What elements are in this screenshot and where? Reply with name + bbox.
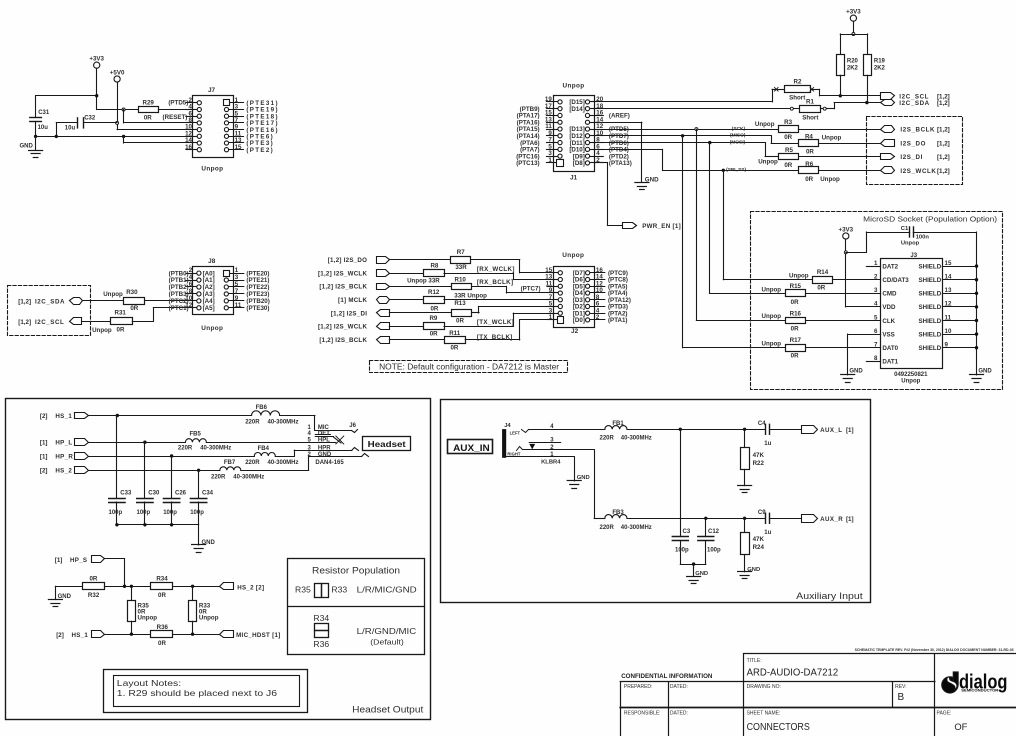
svg-text:RESPONSIBLE:: RESPONSIBLE: bbox=[624, 711, 661, 717]
svg-text:GND: GND bbox=[978, 368, 992, 374]
svg-text:[RX_WCLK]: [RX_WCLK] bbox=[477, 266, 515, 273]
svg-text:2: 2 bbox=[596, 314, 600, 321]
svg-text:100p: 100p bbox=[675, 547, 689, 553]
svg-text:11: 11 bbox=[235, 302, 242, 309]
svg-text:REV:: REV: bbox=[895, 684, 906, 690]
svg-text:0R: 0R bbox=[158, 640, 166, 647]
svg-text:SHIELD: SHIELD bbox=[918, 263, 941, 270]
svg-text:0R: 0R bbox=[791, 326, 799, 333]
svg-text:I2C_SDA: I2C_SDA bbox=[35, 299, 65, 306]
svg-text:(SPI_SS): (SPI_SS) bbox=[726, 167, 746, 173]
svg-text:Headset Output: Headset Output bbox=[352, 705, 424, 715]
svg-text:[1,2] I2S_BCLK: [1,2] I2S_BCLK bbox=[319, 284, 367, 291]
svg-text:DAT0: DAT0 bbox=[882, 345, 898, 352]
svg-text:I2S_DO: I2S_DO bbox=[900, 141, 926, 148]
svg-text:C3: C3 bbox=[683, 529, 691, 535]
svg-text:Unpop: Unpop bbox=[822, 134, 842, 141]
svg-text:[1,2]: [1,2] bbox=[937, 168, 950, 175]
svg-text:2K2: 2K2 bbox=[874, 66, 886, 72]
svg-text:0R: 0R bbox=[130, 305, 138, 312]
svg-text:[1,2] I2S_DI: [1,2] I2S_DI bbox=[331, 310, 367, 317]
svg-text:[1]: [1] bbox=[40, 440, 48, 447]
svg-text:GND: GND bbox=[20, 144, 34, 150]
svg-text:100p: 100p bbox=[707, 547, 721, 553]
svg-text:GND: GND bbox=[645, 177, 659, 184]
svg-text:47K: 47K bbox=[753, 536, 765, 543]
svg-text:(PTC13): (PTC13) bbox=[516, 160, 539, 167]
svg-text:(MISO): (MISO) bbox=[730, 133, 746, 139]
svg-text:R16: R16 bbox=[790, 310, 802, 317]
svg-text:0R: 0R bbox=[817, 285, 825, 292]
svg-text:220R: 220R bbox=[245, 420, 260, 426]
svg-text:GND: GND bbox=[747, 567, 760, 573]
svg-text:HS_2 [2]: HS_2 [2] bbox=[237, 584, 264, 591]
svg-text:GND: GND bbox=[318, 452, 332, 458]
svg-text:[A4]: [A4] bbox=[203, 298, 215, 305]
svg-text:[1]: [1] bbox=[40, 453, 48, 460]
svg-text:[1,2]: [1,2] bbox=[937, 100, 950, 107]
svg-text:GND: GND bbox=[202, 540, 216, 546]
svg-text:R1: R1 bbox=[806, 99, 814, 106]
svg-text:(MOSI): (MOSI) bbox=[730, 139, 746, 145]
svg-text:R33: R33 bbox=[331, 585, 347, 595]
svg-text:HS_1: HS_1 bbox=[55, 413, 72, 420]
svg-text:[1,2] I2S_WCLK: [1,2] I2S_WCLK bbox=[318, 324, 368, 331]
svg-text:[2]: [2] bbox=[40, 413, 48, 420]
svg-text:FB4: FB4 bbox=[258, 446, 270, 452]
svg-text:220R: 220R bbox=[211, 474, 226, 480]
svg-text:Unpop: Unpop bbox=[901, 241, 920, 247]
svg-text:R31: R31 bbox=[115, 310, 127, 317]
svg-text:+5V0: +5V0 bbox=[110, 69, 125, 76]
svg-text:R10: R10 bbox=[455, 276, 467, 283]
svg-text:220R: 220R bbox=[178, 446, 193, 452]
svg-text:[1,2] I2S_DO: [1,2] I2S_DO bbox=[328, 257, 367, 264]
svg-text:11: 11 bbox=[945, 314, 952, 321]
svg-text:Unpop: Unpop bbox=[138, 615, 158, 622]
svg-text:FB3: FB3 bbox=[612, 510, 624, 516]
svg-text:J1: J1 bbox=[570, 174, 578, 181]
svg-text:I2C_SDA: I2C_SDA bbox=[899, 100, 929, 107]
svg-text:40-300MHz: 40-300MHz bbox=[233, 474, 264, 480]
svg-text:(AREF): (AREF) bbox=[609, 113, 630, 120]
svg-text:Auxiliary Input: Auxiliary Input bbox=[796, 591, 863, 601]
svg-text:I2C_SCL: I2C_SCL bbox=[35, 319, 64, 326]
svg-text:C33: C33 bbox=[120, 491, 132, 497]
svg-text:C1: C1 bbox=[901, 226, 909, 232]
svg-text:R11: R11 bbox=[449, 330, 461, 337]
svg-text:DRAWING NO:: DRAWING NO: bbox=[747, 684, 781, 690]
svg-text:DAT2: DAT2 bbox=[882, 263, 898, 270]
svg-text:GND: GND bbox=[58, 594, 72, 600]
svg-text:TITLE:: TITLE: bbox=[747, 658, 762, 664]
svg-text:DAT1: DAT1 bbox=[882, 359, 898, 366]
svg-text:R4: R4 bbox=[805, 133, 813, 140]
svg-text:SHEET NAME:: SHEET NAME: bbox=[747, 711, 781, 717]
svg-text:I2S_DI: I2S_DI bbox=[900, 154, 923, 161]
svg-text:0R: 0R bbox=[430, 331, 438, 338]
svg-text:FB7: FB7 bbox=[224, 460, 236, 466]
svg-text:(PTE2): (PTE2) bbox=[246, 147, 274, 154]
svg-text:1u: 1u bbox=[764, 441, 771, 447]
svg-text:40-300MHz: 40-300MHz bbox=[268, 420, 299, 426]
svg-text:CONFIDENTIAL INFORMATION: CONFIDENTIAL INFORMATION bbox=[621, 673, 712, 680]
svg-text:I2S_BCLK: I2S_BCLK bbox=[900, 127, 935, 134]
svg-text:C9: C9 bbox=[758, 510, 766, 516]
svg-text:3: 3 bbox=[235, 274, 239, 281]
svg-text:CMD: CMD bbox=[882, 291, 897, 298]
svg-text:Unpop: Unpop bbox=[758, 159, 778, 166]
svg-text:R36: R36 bbox=[313, 639, 329, 649]
svg-text:DET: DET bbox=[318, 431, 330, 437]
svg-text:SHIELD: SHIELD bbox=[918, 331, 941, 338]
svg-text:HP_L: HP_L bbox=[55, 440, 72, 447]
svg-text:5: 5 bbox=[235, 281, 239, 288]
svg-text:40-300MHz: 40-300MHz bbox=[621, 436, 652, 442]
svg-text:PAGE:: PAGE: bbox=[937, 711, 952, 717]
svg-text:SHIELD: SHIELD bbox=[918, 291, 941, 298]
svg-text:C26: C26 bbox=[175, 491, 187, 497]
svg-text:(PTC1): (PTC1) bbox=[169, 305, 189, 312]
svg-text:Unpop: Unpop bbox=[563, 83, 585, 90]
svg-text:(PTE30): (PTE30) bbox=[246, 305, 269, 312]
svg-text:J6: J6 bbox=[349, 423, 356, 429]
svg-text:GND: GND bbox=[695, 571, 708, 577]
svg-text:AUX_R: AUX_R bbox=[820, 516, 843, 523]
svg-text:R13: R13 bbox=[454, 300, 466, 307]
svg-text:HPR: HPR bbox=[318, 446, 331, 452]
svg-text:GND: GND bbox=[577, 475, 590, 481]
svg-text:DATED:: DATED: bbox=[670, 684, 688, 690]
svg-text:100p: 100p bbox=[190, 510, 204, 516]
svg-text:0R: 0R bbox=[791, 299, 799, 306]
svg-text:KLBR4: KLBR4 bbox=[541, 460, 561, 466]
svg-text:J3: J3 bbox=[910, 253, 917, 259]
svg-text:LEFT: LEFT bbox=[510, 431, 521, 436]
svg-text:R7: R7 bbox=[457, 249, 465, 256]
svg-text:Short: Short bbox=[789, 95, 805, 102]
svg-text:14: 14 bbox=[945, 274, 952, 281]
svg-text:HP_S: HP_S bbox=[70, 557, 87, 564]
svg-text:40-300MHz: 40-300MHz bbox=[268, 460, 299, 466]
svg-text:(PTD5): (PTD5) bbox=[168, 100, 188, 107]
svg-text:Unpop: Unpop bbox=[762, 313, 782, 320]
svg-text:(PTA13): (PTA13) bbox=[609, 160, 632, 167]
svg-text:SCHEMATIC TEMPLATE REV. F#2 (N: SCHEMATIC TEMPLATE REV. F#2 (November 30… bbox=[855, 648, 1014, 652]
svg-text:33R: 33R bbox=[455, 264, 467, 271]
svg-text:[1,2] I2S_BCLK: [1,2] I2S_BCLK bbox=[319, 337, 367, 344]
svg-text:[TX_BCLK]: [TX_BCLK] bbox=[477, 334, 513, 341]
svg-text:15: 15 bbox=[945, 260, 952, 267]
svg-text:R34: R34 bbox=[156, 576, 168, 583]
svg-text:[1,2]: [1,2] bbox=[937, 141, 950, 148]
svg-text:R6: R6 bbox=[805, 161, 813, 168]
svg-text:10u: 10u bbox=[65, 125, 76, 131]
svg-text:[1] MCLK: [1] MCLK bbox=[338, 297, 367, 304]
svg-text:[RX_BCLK]: [RX_BCLK] bbox=[477, 279, 514, 286]
svg-text:Unpop: Unpop bbox=[901, 379, 920, 385]
svg-text:R35: R35 bbox=[295, 585, 311, 595]
svg-text:1: 1 bbox=[548, 157, 552, 164]
svg-text:[D14]: [D14] bbox=[569, 106, 584, 113]
svg-text:DATED:: DATED: bbox=[670, 711, 688, 717]
svg-text:(SCK): (SCK) bbox=[732, 126, 746, 132]
svg-text:PREPARED:: PREPARED: bbox=[624, 684, 653, 690]
svg-text:100n: 100n bbox=[916, 235, 930, 241]
svg-text:SHIELD: SHIELD bbox=[918, 277, 941, 284]
svg-text:13: 13 bbox=[945, 287, 952, 294]
svg-text:1: 1 bbox=[549, 314, 553, 321]
svg-text:Unpop: Unpop bbox=[762, 286, 782, 293]
svg-text:(PTB20): (PTB20) bbox=[246, 298, 269, 305]
svg-text:100p: 100p bbox=[137, 510, 151, 516]
svg-text:R34: R34 bbox=[313, 613, 329, 623]
svg-text:R14: R14 bbox=[817, 269, 829, 276]
svg-text:C34: C34 bbox=[202, 491, 214, 497]
svg-text:220R: 220R bbox=[245, 460, 260, 466]
svg-text:R15: R15 bbox=[790, 283, 802, 290]
svg-text:J4: J4 bbox=[504, 423, 511, 429]
svg-text:CLK: CLK bbox=[882, 318, 895, 325]
svg-text:0492250821: 0492250821 bbox=[894, 372, 928, 378]
svg-text:[A5]: [A5] bbox=[203, 305, 215, 312]
svg-text:40-300MHz: 40-300MHz bbox=[200, 446, 231, 452]
svg-text:OF: OF bbox=[954, 721, 967, 732]
svg-text:[1]: [1] bbox=[846, 427, 854, 434]
svg-text:R20: R20 bbox=[847, 59, 859, 65]
svg-text:R9: R9 bbox=[429, 315, 437, 322]
svg-text:Unpop: Unpop bbox=[562, 252, 584, 259]
svg-text:0R: 0R bbox=[450, 345, 458, 352]
svg-text:C4: C4 bbox=[758, 421, 766, 427]
svg-text:[1,2]: [1,2] bbox=[937, 154, 950, 161]
svg-text:9: 9 bbox=[945, 342, 949, 349]
svg-text:R12: R12 bbox=[428, 289, 440, 296]
svg-text:(PTC7): (PTC7) bbox=[521, 285, 541, 292]
svg-text:Unpop: Unpop bbox=[201, 325, 223, 332]
svg-text:0R: 0R bbox=[144, 114, 152, 121]
svg-text:[1,2]: [1,2] bbox=[18, 319, 31, 326]
svg-text:HP_R: HP_R bbox=[55, 453, 73, 460]
svg-text:AUX_IN: AUX_IN bbox=[453, 443, 490, 453]
svg-text:R3: R3 bbox=[784, 119, 792, 126]
svg-text:100p: 100p bbox=[163, 510, 177, 516]
svg-text:(PTA1): (PTA1) bbox=[608, 317, 627, 324]
svg-text:+3V3: +3V3 bbox=[838, 226, 853, 233]
svg-text:1: 1 bbox=[874, 260, 878, 267]
svg-text:HS_2: HS_2 bbox=[55, 468, 72, 475]
svg-text:Unpop: Unpop bbox=[92, 327, 112, 334]
svg-text:0R: 0R bbox=[117, 326, 125, 333]
svg-text:C32: C32 bbox=[84, 115, 96, 121]
svg-text:B: B bbox=[898, 692, 905, 703]
svg-text:Layout Notes:: Layout Notes: bbox=[117, 678, 181, 688]
svg-text:FB1: FB1 bbox=[612, 421, 624, 427]
svg-text:PWR_EN [1]: PWR_EN [1] bbox=[642, 223, 681, 230]
svg-text:220R: 220R bbox=[600, 436, 615, 442]
svg-text:[D0]: [D0] bbox=[573, 317, 585, 324]
svg-text:SHIELD: SHIELD bbox=[918, 304, 941, 311]
svg-text:0R: 0R bbox=[430, 306, 438, 313]
svg-text:[1,2]: [1,2] bbox=[18, 299, 31, 306]
svg-text:4: 4 bbox=[189, 274, 193, 281]
svg-text:33R Unpop: 33R Unpop bbox=[454, 293, 487, 300]
svg-text:[2]: [2] bbox=[40, 468, 48, 475]
svg-text:Unpop: Unpop bbox=[199, 615, 219, 622]
svg-text:R2: R2 bbox=[794, 78, 802, 85]
svg-text:I2S_WCLK: I2S_WCLK bbox=[900, 168, 936, 175]
svg-text:0R: 0R bbox=[805, 176, 813, 183]
svg-text:HS_1: HS_1 bbox=[72, 632, 89, 639]
svg-text:[D8]: [D8] bbox=[573, 160, 585, 167]
svg-text:C30: C30 bbox=[148, 491, 160, 497]
svg-text:[TX_WCLK]: [TX_WCLK] bbox=[477, 319, 514, 326]
svg-text:CD/DAT3: CD/DAT3 bbox=[882, 277, 909, 284]
svg-text:C12: C12 bbox=[708, 529, 720, 535]
svg-text:0R: 0R bbox=[791, 353, 799, 360]
svg-text:R24: R24 bbox=[753, 544, 765, 551]
svg-text:Unpop 33R: Unpop 33R bbox=[407, 278, 440, 285]
svg-text:Short: Short bbox=[802, 114, 818, 121]
svg-text:Resistor Population: Resistor Population bbox=[312, 565, 400, 575]
svg-text:Unpop: Unpop bbox=[201, 166, 223, 173]
svg-text:(RESET): (RESET) bbox=[163, 114, 188, 121]
svg-text:1u: 1u bbox=[764, 530, 771, 536]
svg-text:R22: R22 bbox=[753, 460, 765, 467]
svg-text:NOTE: Default configuration -: NOTE: Default configuration - DA7212 is … bbox=[379, 363, 559, 372]
svg-text:+3V3: +3V3 bbox=[846, 9, 861, 16]
svg-text:ARD-AUDIO-DA7212: ARD-AUDIO-DA7212 bbox=[747, 668, 839, 679]
svg-text:0R: 0R bbox=[806, 148, 814, 155]
svg-text:[1,2]: [1,2] bbox=[937, 127, 950, 134]
svg-text:DAN4-165: DAN4-165 bbox=[315, 460, 344, 466]
svg-text:Headset: Headset bbox=[368, 439, 406, 449]
svg-text:47K: 47K bbox=[753, 452, 765, 459]
svg-text:15: 15 bbox=[235, 144, 242, 151]
svg-text:Unpop: Unpop bbox=[762, 340, 782, 347]
svg-text:1. R29 should be placed next t: 1. R29 should be placed next to J6 bbox=[117, 688, 277, 698]
svg-text:6: 6 bbox=[189, 281, 193, 288]
svg-text:100p: 100p bbox=[109, 510, 123, 516]
svg-text:CONNECTORS: CONNECTORS bbox=[747, 722, 810, 733]
svg-text:0R: 0R bbox=[456, 318, 464, 325]
svg-text:16: 16 bbox=[185, 144, 192, 151]
svg-text:+3V3: +3V3 bbox=[89, 56, 104, 63]
svg-text:J2: J2 bbox=[571, 328, 579, 335]
svg-text:[1,2] I2S_WCLK: [1,2] I2S_WCLK bbox=[318, 270, 368, 277]
svg-text:0R: 0R bbox=[158, 592, 166, 599]
svg-text:J7: J7 bbox=[208, 87, 216, 94]
svg-text:12: 12 bbox=[945, 301, 952, 308]
svg-text:R19: R19 bbox=[874, 59, 886, 65]
svg-text:Unpop: Unpop bbox=[789, 273, 809, 280]
svg-text:0R: 0R bbox=[784, 134, 792, 141]
svg-text:R30: R30 bbox=[126, 289, 138, 296]
svg-text:Unpop: Unpop bbox=[103, 291, 123, 298]
svg-text:R32: R32 bbox=[88, 592, 100, 599]
svg-text:R36: R36 bbox=[157, 624, 169, 631]
svg-text:10: 10 bbox=[945, 328, 952, 335]
svg-text:MIC_HDST [1]: MIC_HDST [1] bbox=[236, 632, 281, 639]
svg-text:Unpop: Unpop bbox=[755, 121, 775, 128]
svg-text:RIGHT: RIGHT bbox=[507, 452, 520, 457]
svg-text:R29: R29 bbox=[143, 99, 155, 106]
svg-text:HPL: HPL bbox=[318, 437, 330, 443]
svg-text:[1]: [1] bbox=[846, 516, 854, 523]
svg-text:0R: 0R bbox=[89, 576, 97, 583]
svg-text:10u: 10u bbox=[38, 125, 49, 131]
svg-text:L/R/MIC/GND: L/R/MIC/GND bbox=[357, 585, 417, 595]
svg-text:40-300MHz: 40-300MHz bbox=[621, 525, 652, 531]
svg-text:220R: 220R bbox=[600, 525, 615, 531]
svg-text:6: 6 bbox=[874, 328, 878, 335]
svg-text:J8: J8 bbox=[208, 258, 216, 265]
svg-text:L/R/GND/MIC: L/R/GND/MIC bbox=[357, 626, 417, 636]
svg-text:(Default): (Default) bbox=[370, 639, 404, 646]
svg-text:VDD: VDD bbox=[882, 304, 896, 311]
svg-text:GND: GND bbox=[849, 368, 863, 374]
svg-text:C31: C31 bbox=[38, 110, 50, 116]
svg-text:0R: 0R bbox=[784, 162, 792, 169]
svg-text:R8: R8 bbox=[430, 262, 438, 269]
svg-text:FB6: FB6 bbox=[256, 405, 268, 411]
svg-text:SEMICONDUCTOR: SEMICONDUCTOR bbox=[961, 688, 999, 692]
svg-text:Unpop: Unpop bbox=[820, 176, 840, 183]
svg-text:2K2: 2K2 bbox=[847, 66, 859, 72]
svg-text:R5: R5 bbox=[785, 147, 793, 154]
svg-text:[1]: [1] bbox=[55, 557, 63, 564]
svg-text:R17: R17 bbox=[790, 337, 802, 344]
svg-text:FB5: FB5 bbox=[190, 432, 202, 438]
svg-text:SHIELD: SHIELD bbox=[918, 345, 941, 352]
svg-text:MicroSD Socket (Population Opt: MicroSD Socket (Population Option) bbox=[863, 214, 997, 223]
svg-text:[2]: [2] bbox=[56, 632, 64, 639]
svg-text:AUX_L: AUX_L bbox=[820, 427, 842, 434]
svg-text:SHIELD: SHIELD bbox=[918, 318, 941, 325]
svg-text:VSS: VSS bbox=[882, 331, 894, 338]
